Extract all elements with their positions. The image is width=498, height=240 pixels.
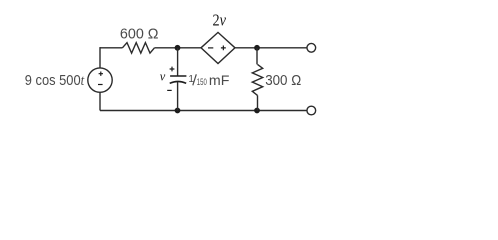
svg-text:300 Ω: 300 Ω — [265, 73, 301, 89]
dependent source minus sign — [208, 47, 213, 49]
capacitor plus sign — [170, 67, 175, 72]
wire capacitor branch lower — [177, 82, 179, 111]
wire top left segment — [100, 47, 122, 49]
svg-text:2v: 2v — [213, 11, 227, 30]
wire bottom — [100, 110, 307, 112]
voltage source VS circle 9cos500t — [88, 68, 112, 92]
resistor R1 600Ω zigzag — [122, 43, 154, 54]
capacitor C1 curved plate — [170, 81, 187, 83]
capacitor C1 top plate — [170, 75, 186, 77]
wire 300Ω branch upper — [256, 48, 258, 65]
capacitor minus sign — [167, 89, 172, 91]
terminal a top open circle — [307, 43, 316, 52]
dependent source plus sign — [221, 46, 226, 51]
wire 300Ω branch lower — [257, 95, 259, 110]
terminal b bottom open circle — [307, 106, 316, 115]
wire capacitor branch upper — [177, 48, 179, 76]
node junction bottom-right dot — [254, 108, 260, 114]
wire left vertical upper — [99, 47, 101, 68]
svg-text:600 Ω: 600 Ω — [120, 27, 159, 43]
svg-text:v: v — [160, 70, 166, 84]
svg-text:9 cos 500t: 9 cos 500t — [25, 72, 85, 89]
wire left vertical lower — [99, 92, 101, 110]
node junction bottom-left dot — [175, 108, 181, 114]
voltage source plus sign — [99, 72, 103, 76]
node junction top-left dot — [175, 45, 181, 51]
resistor R2 300Ω zigzag — [252, 64, 262, 95]
voltage source minus sign — [98, 84, 103, 86]
wire top middle segment — [155, 47, 202, 49]
svg-text:150: 150 — [197, 76, 207, 87]
node junction top-right dot — [254, 45, 260, 51]
wire top right segment — [235, 47, 307, 49]
svg-text:mF: mF — [209, 72, 230, 88]
dependent source U1 diamond 2v — [201, 32, 235, 63]
